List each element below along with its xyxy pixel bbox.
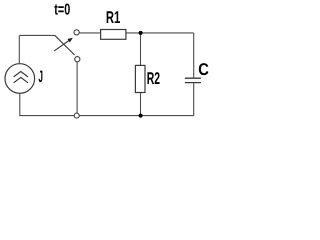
node: junction dot bottom <box>139 114 143 118</box>
svg-text:J: J <box>38 68 43 86</box>
wire: R2 branch upper vertical <box>140 33 142 66</box>
svg-text:R2: R2 <box>147 69 160 88</box>
wire: bottom rail <box>19 115 193 117</box>
capacitor C bottom plate <box>185 82 201 84</box>
switch upper contact <box>74 30 79 35</box>
wire: capacitor bottom to bottom-right corner <box>193 83 195 116</box>
wire: left rail upper vertical (corner to source top) <box>18 35 20 63</box>
wire: left rail lower vertical (source bottom to bottom rail) <box>19 93 21 115</box>
switch motion arrowhead <box>68 38 73 43</box>
capacitor C top plate <box>185 77 201 79</box>
current source chevron upper <box>14 72 28 77</box>
wire: switch lower throw down to bottom rail terminal <box>76 62 78 113</box>
svg-text:R1: R1 <box>106 8 120 27</box>
resistor R1 <box>101 30 126 40</box>
switch blade <box>55 35 75 55</box>
wire: R1 to top-right corner <box>126 32 194 34</box>
switch motion arrow shaft <box>54 41 69 51</box>
current source chevron lower <box>14 77 28 82</box>
svg-text:C: C <box>198 60 209 79</box>
node: junction dot top <box>139 31 143 35</box>
switch lower contact <box>75 57 80 62</box>
wire: top-right vertical down to capacitor <box>193 33 195 78</box>
svg-text:t=0: t=0 <box>54 2 70 19</box>
current source J circle <box>5 64 35 94</box>
wire: top contact to R1 <box>79 32 100 34</box>
wire: top-left horizontal from left rail to switch pivot <box>19 34 54 36</box>
bottom rail terminal circle <box>74 113 79 118</box>
wire: R2 branch lower vertical <box>140 93 142 116</box>
resistor R2 <box>135 65 145 92</box>
